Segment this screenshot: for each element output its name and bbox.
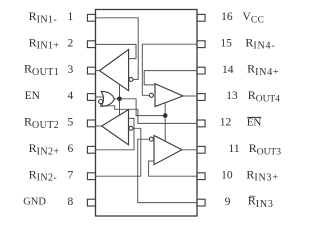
svg-text:RIN4-: RIN4- <box>245 35 275 51</box>
svg-text:RIN1+: RIN1+ <box>29 35 60 51</box>
wire U1 output to pin 3 <box>96 70 100 72</box>
wire pin 10 to U3 noninverting input <box>149 161 197 176</box>
wire enable riser to U1 and U2 <box>119 84 121 115</box>
svg-text:4: 4 <box>68 90 74 102</box>
svg-text:RIN3+: RIN3+ <box>246 167 278 183</box>
wire pin 14 to U4 noninverting input <box>144 71 197 85</box>
svg-text:16: 16 <box>221 11 233 23</box>
svg-text:8: 8 <box>68 196 74 208</box>
svg-text:ROUT1: ROUT1 <box>24 62 59 78</box>
pin 6 stub <box>87 146 95 153</box>
svg-text:5: 5 <box>68 117 74 129</box>
pin 3 stub <box>87 67 95 74</box>
pin 11 stub <box>197 146 205 153</box>
svg-text:7: 7 <box>68 169 74 181</box>
receiver U4 inverting input bubble <box>149 93 153 97</box>
junction node at trunk and right riser <box>163 113 168 118</box>
receiver U4 triangle <box>155 84 183 107</box>
svg-text:GND: GND <box>23 197 46 208</box>
svg-text:RIN1-: RIN1- <box>29 9 57 25</box>
net label RIN3 overline mark <box>250 195 256 197</box>
svg-text:12: 12 <box>220 117 232 129</box>
pin 16 stub <box>197 14 205 21</box>
svg-text:11: 11 <box>229 143 240 155</box>
pin 14 stub <box>197 67 205 74</box>
svg-text:RIN4+: RIN4+ <box>247 62 279 78</box>
svg-text:ROUT2: ROUT2 <box>24 115 59 131</box>
svg-text:1: 1 <box>68 11 74 23</box>
wire pin 4 EN to OR gate input <box>96 96 104 98</box>
svg-text:EN: EN <box>247 117 262 129</box>
receiver U1 triangle <box>99 50 128 91</box>
wire pin 15 to U4 inverting bubble <box>142 44 197 95</box>
pin 7 stub <box>87 173 95 180</box>
pin 13 stub <box>197 94 205 101</box>
svg-text:ROUT3: ROUT3 <box>249 141 282 157</box>
svg-text:RIN2-: RIN2- <box>29 167 57 183</box>
wire OR gate output trunk <box>114 99 165 116</box>
pin 5 stub <box>87 120 95 127</box>
pin 9 stub <box>197 199 205 206</box>
wire U2 output to pin 5 <box>96 125 102 127</box>
svg-text:9: 9 <box>225 196 231 208</box>
svg-text:14: 14 <box>222 64 234 76</box>
pin 15 stub <box>197 41 205 48</box>
svg-text:10: 10 <box>221 169 233 181</box>
wire pin 6 to U2 noninverting input <box>96 118 135 149</box>
receiver U3 triangle <box>154 136 182 165</box>
pin 2 stub <box>87 41 95 48</box>
pin 10 stub <box>197 173 205 180</box>
svg-text:13: 13 <box>226 90 238 102</box>
receiver U2 inverting input bubble <box>129 126 133 130</box>
svg-text:2: 2 <box>68 37 74 49</box>
svg-text:ROUT4: ROUT4 <box>248 88 281 104</box>
wire pin 7 to U2 inverting bubble <box>96 128 141 176</box>
svg-text:3: 3 <box>68 64 74 76</box>
wire U3 output to pin 11 <box>182 149 197 151</box>
svg-text:VCC: VCC <box>243 11 265 25</box>
receiver U3 inverting input bubble <box>149 137 153 141</box>
IC body outline <box>96 10 198 217</box>
svg-text:RIN2+: RIN2+ <box>29 141 60 157</box>
wire pin 2 to U1 noninverting input <box>96 44 137 58</box>
enable OR gate <box>101 91 114 106</box>
wire pin 1 to U1 inverting bubble <box>96 18 139 80</box>
svg-text:15: 15 <box>220 37 232 49</box>
wire U4 output to pin 13 <box>183 95 197 97</box>
wire pin 12 ENbar to OR gate bubble <box>101 104 197 124</box>
net label ENbar overline <box>248 116 261 118</box>
receiver U2 triangle <box>102 110 129 145</box>
wire enable riser to U4 and U3 <box>164 103 166 142</box>
enable OR gate active-low input bubble <box>99 100 103 104</box>
pin 4 stub <box>87 94 95 101</box>
junction node at OR output and left riser <box>117 97 122 102</box>
pin 8 stub <box>87 199 95 206</box>
svg-text:6: 6 <box>68 143 74 155</box>
pin 1 stub <box>87 14 95 21</box>
svg-text:EN: EN <box>25 90 41 102</box>
pin 12 stub <box>197 120 205 127</box>
receiver U1 inverting input bubble <box>129 77 133 81</box>
wire pin 9 to U3 inverting bubble <box>138 139 197 202</box>
